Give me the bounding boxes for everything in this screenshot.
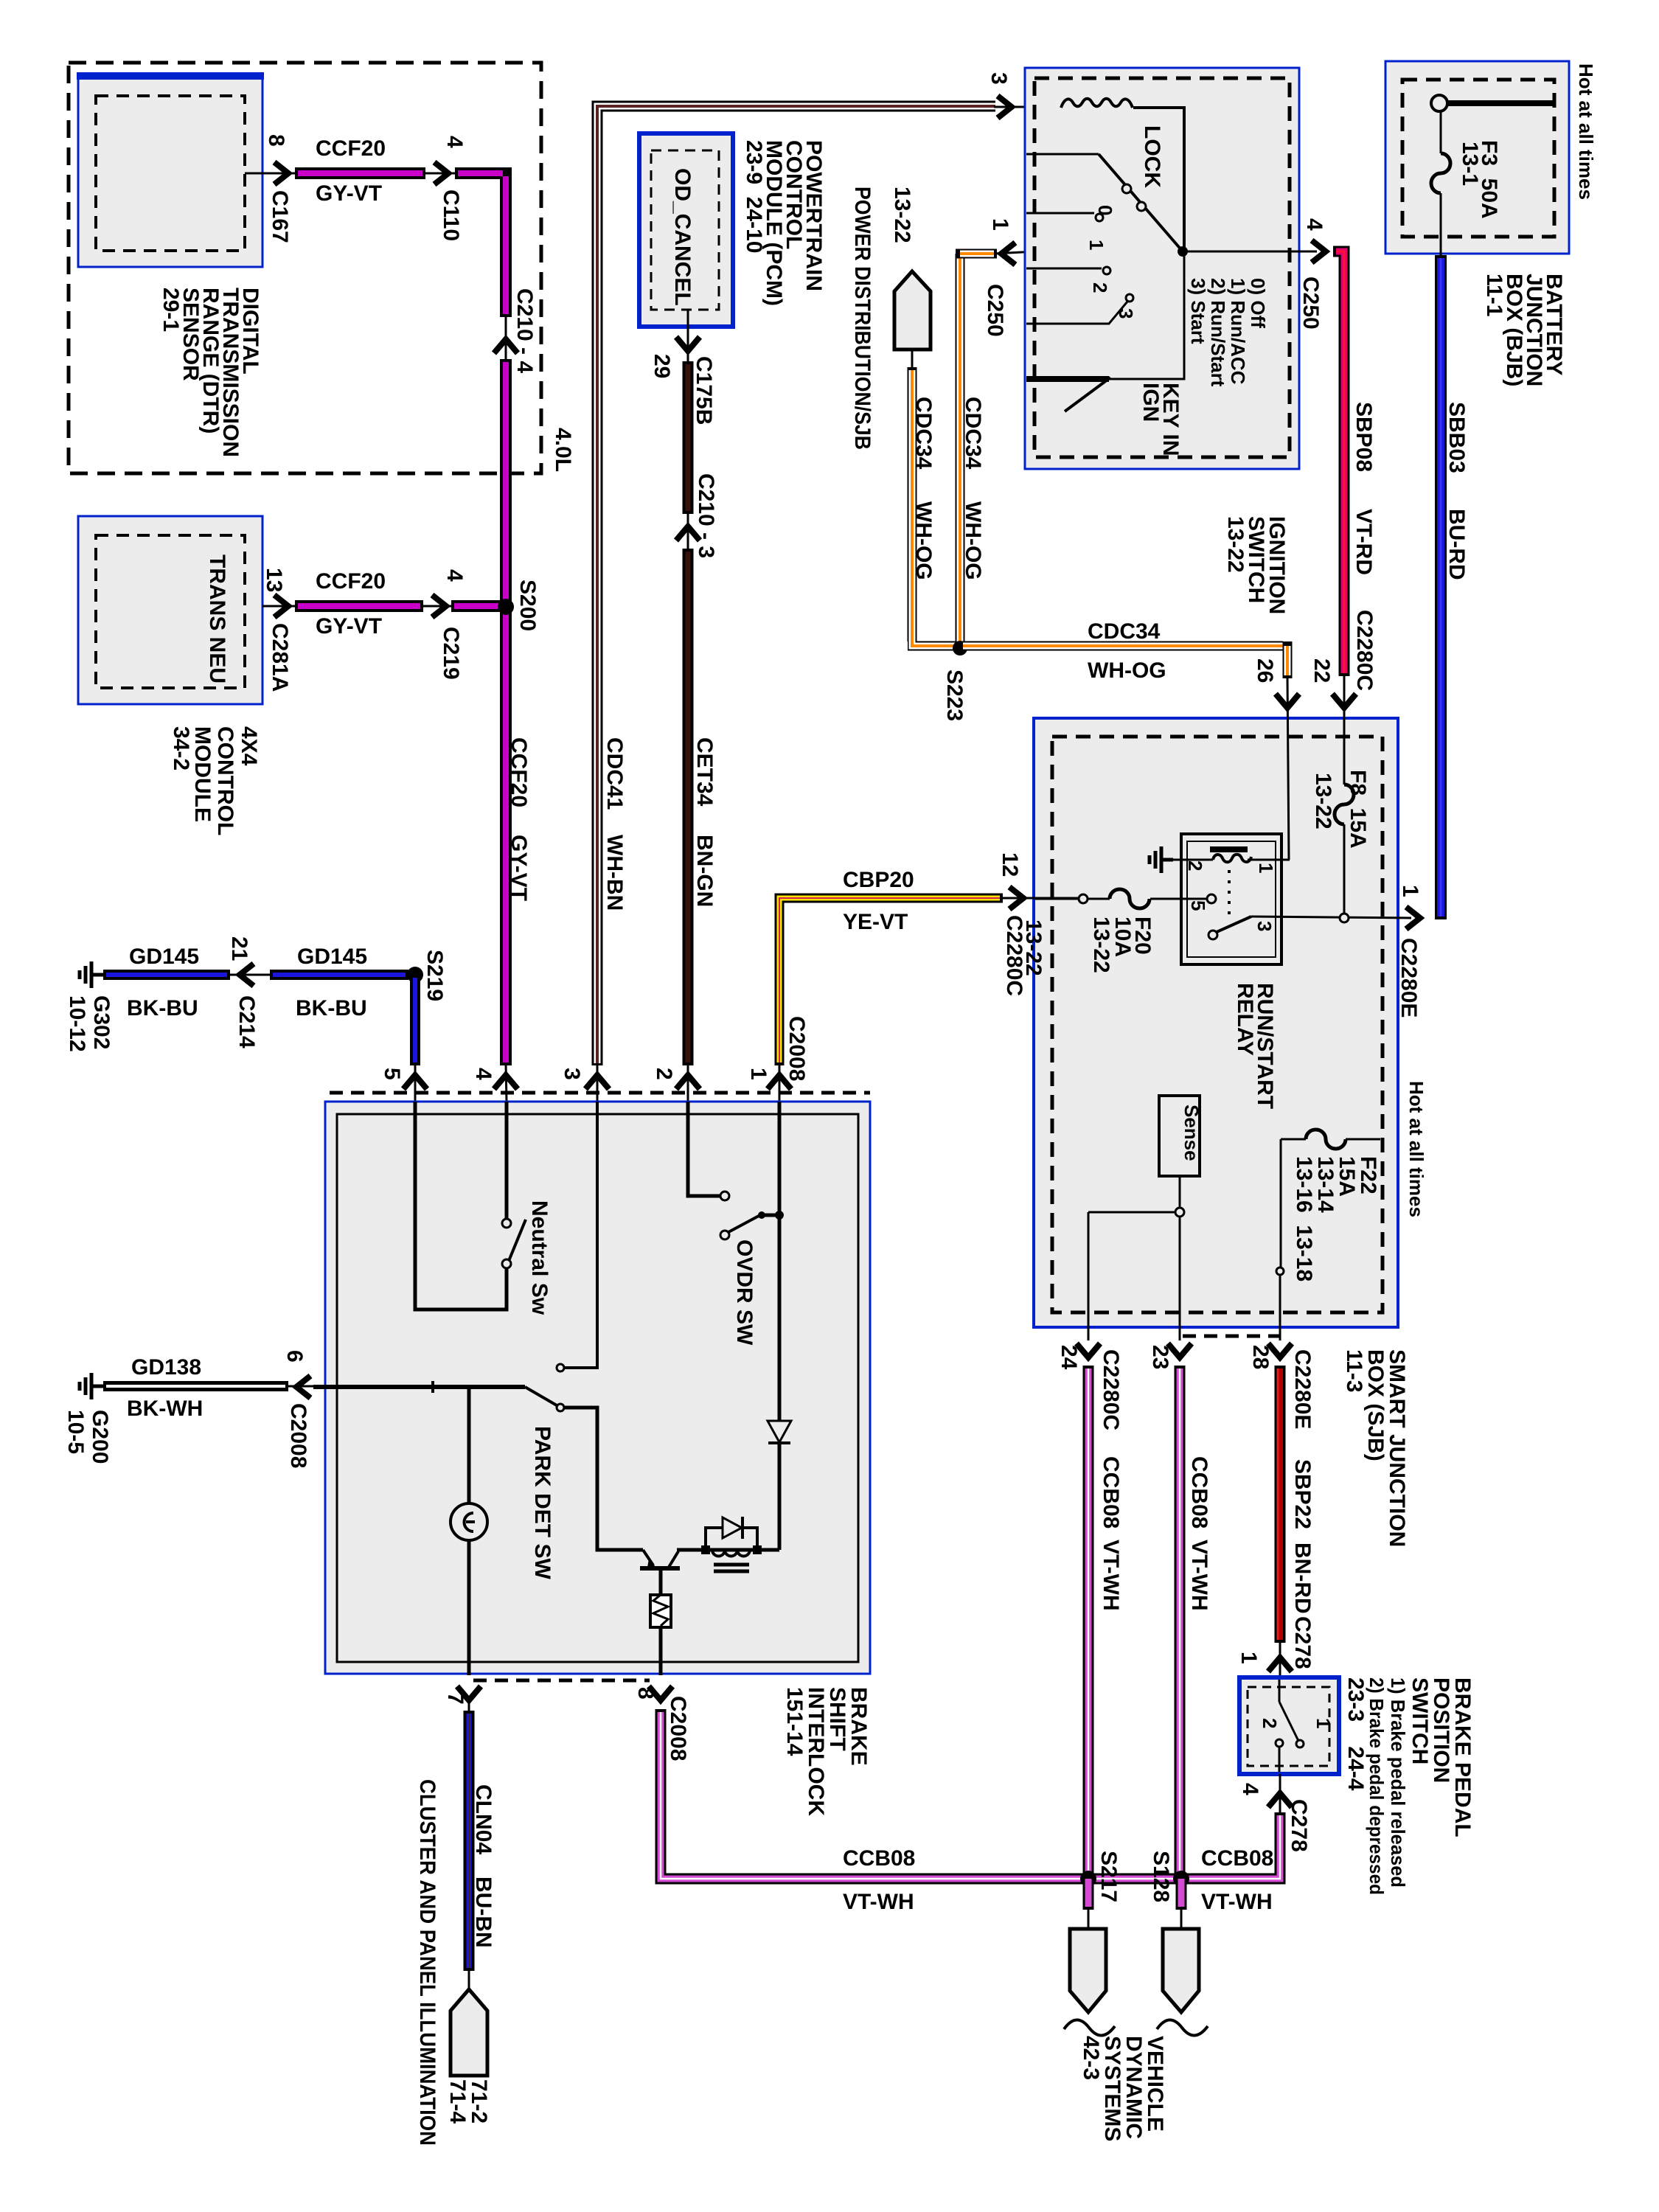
svg-text:13-1: 13-1 bbox=[1458, 142, 1482, 186]
svg-text:SBP22: SBP22 bbox=[1290, 1459, 1315, 1529]
svg-text:C2008: C2008 bbox=[286, 1403, 310, 1468]
svg-text:OVDR SW: OVDR SW bbox=[732, 1239, 757, 1346]
svg-text:1) Run/ACC: 1) Run/ACC bbox=[1227, 278, 1249, 385]
svg-text:22: 22 bbox=[1310, 658, 1334, 683]
svg-text:SWITCH: SWITCH bbox=[1408, 1677, 1432, 1764]
svg-text:S128: S128 bbox=[1149, 1851, 1173, 1902]
svg-text:CLN04: CLN04 bbox=[471, 1784, 495, 1854]
svg-text:2: 2 bbox=[1089, 282, 1111, 293]
svg-text:LOCK: LOCK bbox=[1140, 125, 1164, 188]
svg-text:5: 5 bbox=[380, 1068, 404, 1080]
svg-text:CONTROL: CONTROL bbox=[213, 726, 237, 835]
svg-text:CLUSTER AND PANEL ILLUMINATION: CLUSTER AND PANEL ILLUMINATION bbox=[415, 1779, 439, 2146]
svg-text:4X4: 4X4 bbox=[237, 726, 261, 766]
svg-text:42-3: 42-3 bbox=[1079, 2036, 1103, 2080]
svg-text:2: 2 bbox=[1184, 860, 1206, 871]
svg-text:23: 23 bbox=[1148, 1345, 1172, 1369]
svg-text:1: 1 bbox=[1255, 863, 1277, 873]
svg-text:29: 29 bbox=[650, 354, 674, 378]
svg-text:1: 1 bbox=[1085, 240, 1107, 250]
svg-text:2: 2 bbox=[1259, 1718, 1281, 1728]
svg-text:CCB08: CCB08 bbox=[843, 1846, 915, 1871]
svg-text:VT-WH: VT-WH bbox=[1099, 1540, 1123, 1611]
svg-text:3: 3 bbox=[987, 72, 1011, 85]
svg-text:Sense: Sense bbox=[1180, 1105, 1203, 1161]
svg-text:WH-OG: WH-OG bbox=[961, 501, 985, 580]
svg-text:1: 1 bbox=[988, 218, 1012, 231]
svg-text:IGN: IGN bbox=[1138, 383, 1163, 422]
svg-text:8: 8 bbox=[633, 1687, 658, 1700]
svg-text:Hot at all times: Hot at all times bbox=[1575, 63, 1597, 200]
svg-text:POWER DISTRIBUTION/SJB: POWER DISTRIBUTION/SJB bbox=[850, 187, 874, 450]
svg-text:71-4: 71-4 bbox=[445, 2079, 470, 2124]
svg-text:CDC34: CDC34 bbox=[1088, 619, 1161, 644]
svg-text:S217: S217 bbox=[1096, 1851, 1121, 1902]
svg-text:0) Off: 0) Off bbox=[1247, 278, 1269, 328]
svg-text:8: 8 bbox=[264, 134, 288, 147]
svg-text:1: 1 bbox=[1237, 1652, 1261, 1664]
svg-text:SBB03: SBB03 bbox=[1444, 402, 1469, 473]
svg-text:34-2: 34-2 bbox=[169, 726, 193, 771]
svg-text:C250: C250 bbox=[1298, 276, 1323, 330]
svg-text:Neutral Sw: Neutral Sw bbox=[527, 1200, 552, 1315]
svg-text:CDC34: CDC34 bbox=[961, 397, 985, 470]
svg-text:VT-WH: VT-WH bbox=[1187, 1540, 1211, 1611]
svg-text:SBP08: SBP08 bbox=[1352, 402, 1376, 472]
svg-text:151-14: 151-14 bbox=[782, 1687, 807, 1756]
svg-text:RELAY: RELAY bbox=[1233, 983, 1257, 1056]
svg-text:C175B: C175B bbox=[692, 356, 716, 425]
svg-text:7: 7 bbox=[443, 1692, 467, 1705]
svg-text:C2280C: C2280C bbox=[1002, 915, 1026, 996]
svg-text:OD_CANCEL: OD_CANCEL bbox=[670, 168, 695, 306]
svg-text:CDC41: CDC41 bbox=[602, 737, 627, 810]
svg-text:1: 1 bbox=[1312, 1718, 1335, 1728]
svg-text:0: 0 bbox=[1094, 205, 1116, 215]
svg-text:10-5: 10-5 bbox=[63, 1410, 88, 1454]
svg-text:Hot at all times: Hot at all times bbox=[1405, 1081, 1427, 1217]
svg-text:GY-VT: GY-VT bbox=[316, 181, 382, 206]
svg-text:10-12: 10-12 bbox=[65, 995, 89, 1052]
svg-text:C2280E: C2280E bbox=[1397, 938, 1421, 1018]
svg-text:6: 6 bbox=[282, 1350, 307, 1363]
svg-text:S200: S200 bbox=[515, 580, 540, 631]
svg-text:11-1: 11-1 bbox=[1482, 274, 1506, 316]
svg-text:C2280E: C2280E bbox=[1290, 1349, 1315, 1429]
svg-text:WH-BN: WH-BN bbox=[602, 835, 627, 911]
svg-text:BK-BU: BK-BU bbox=[127, 996, 198, 1020]
svg-text:CCB08: CCB08 bbox=[1201, 1846, 1273, 1871]
svg-text:1) Brake pedal released: 1) Brake pedal released bbox=[1387, 1677, 1409, 1888]
svg-text:11-3: 11-3 bbox=[1342, 1349, 1366, 1392]
svg-text:C219: C219 bbox=[439, 627, 463, 680]
svg-text:BU-RD: BU-RD bbox=[1444, 509, 1469, 580]
svg-text:26: 26 bbox=[1253, 658, 1277, 683]
svg-text:C2008: C2008 bbox=[666, 1696, 690, 1761]
svg-text:C281A: C281A bbox=[268, 623, 292, 692]
svg-text:C250: C250 bbox=[983, 284, 1007, 337]
svg-text:4: 4 bbox=[471, 1068, 495, 1080]
svg-text:BN-GN: BN-GN bbox=[692, 835, 717, 907]
svg-text:CCF20: CCF20 bbox=[316, 136, 386, 161]
svg-text:4: 4 bbox=[1238, 1783, 1262, 1795]
svg-text:C110: C110 bbox=[439, 189, 463, 241]
svg-text:CCB08: CCB08 bbox=[1099, 1456, 1123, 1528]
svg-text:C2280C: C2280C bbox=[1099, 1349, 1123, 1430]
svg-text:1: 1 bbox=[1398, 885, 1422, 897]
svg-text:BU-BN: BU-BN bbox=[471, 1877, 495, 1948]
svg-text:21: 21 bbox=[227, 936, 251, 961]
svg-text:24: 24 bbox=[1057, 1345, 1081, 1370]
svg-text:C167: C167 bbox=[268, 190, 292, 243]
svg-text:3: 3 bbox=[560, 1068, 584, 1080]
svg-text:F8 15A: F8 15A bbox=[1346, 770, 1370, 849]
svg-text:2: 2 bbox=[652, 1068, 676, 1080]
svg-text:GY-VT: GY-VT bbox=[316, 614, 382, 639]
svg-text:CET34: CET34 bbox=[692, 737, 717, 807]
svg-text:GD145: GD145 bbox=[297, 945, 367, 969]
svg-text:C2008: C2008 bbox=[785, 1016, 809, 1081]
svg-text:VT-WH: VT-WH bbox=[1201, 1890, 1273, 1914]
svg-text:VT-WH: VT-WH bbox=[843, 1890, 914, 1914]
svg-text:BK-WH: BK-WH bbox=[127, 1397, 203, 1421]
svg-text:4.0L: 4.0L bbox=[551, 428, 575, 472]
svg-text:C278: C278 bbox=[1290, 1616, 1315, 1669]
svg-text:2) Brake pedal depressed: 2) Brake pedal depressed bbox=[1366, 1677, 1388, 1895]
svg-text:C210 - 4: C210 - 4 bbox=[512, 288, 537, 373]
svg-text:13-22: 13-22 bbox=[1089, 917, 1113, 973]
svg-text:GD138: GD138 bbox=[131, 1355, 201, 1380]
svg-text:VT-RD: VT-RD bbox=[1352, 509, 1376, 575]
svg-text:4: 4 bbox=[1302, 218, 1326, 231]
svg-text:BN-RD: BN-RD bbox=[1290, 1543, 1315, 1614]
svg-text:C210 - 3: C210 - 3 bbox=[694, 473, 718, 558]
svg-text:1: 1 bbox=[746, 1068, 771, 1080]
svg-text:C214: C214 bbox=[234, 995, 259, 1048]
svg-text:S223: S223 bbox=[942, 669, 967, 721]
svg-text:G200: G200 bbox=[88, 1410, 112, 1464]
svg-text:13-22: 13-22 bbox=[1311, 773, 1335, 829]
svg-text:3: 3 bbox=[1115, 308, 1137, 319]
svg-text:PARK DET SW: PARK DET SW bbox=[530, 1426, 554, 1579]
svg-text:28: 28 bbox=[1248, 1345, 1273, 1369]
svg-text:CDC34: CDC34 bbox=[911, 397, 936, 470]
svg-text:GD145: GD145 bbox=[129, 945, 199, 969]
svg-text:WH-OG: WH-OG bbox=[1088, 658, 1166, 683]
svg-text:4: 4 bbox=[442, 569, 467, 582]
svg-text:5: 5 bbox=[1187, 900, 1209, 911]
svg-text:3: 3 bbox=[1253, 921, 1276, 931]
svg-text:GY-VT: GY-VT bbox=[507, 835, 531, 901]
svg-text:29-1: 29-1 bbox=[159, 288, 183, 332]
svg-text:S219: S219 bbox=[422, 950, 447, 1001]
svg-text:13: 13 bbox=[262, 568, 286, 592]
svg-text:CCF20: CCF20 bbox=[507, 737, 531, 807]
svg-text:C278: C278 bbox=[1287, 1799, 1311, 1852]
svg-text:13-16 13-18: 13-16 13-18 bbox=[1292, 1156, 1316, 1281]
svg-text:13-22: 13-22 bbox=[890, 187, 914, 243]
svg-text:BK-BU: BK-BU bbox=[296, 996, 367, 1020]
svg-text:3) Start: 3) Start bbox=[1187, 278, 1209, 344]
svg-text:CBP20: CBP20 bbox=[843, 868, 914, 892]
svg-text:CCF20: CCF20 bbox=[316, 569, 386, 594]
svg-text:23-9 24-10: 23-9 24-10 bbox=[742, 140, 766, 253]
svg-text:CCB08: CCB08 bbox=[1187, 1456, 1211, 1528]
svg-text:12: 12 bbox=[998, 852, 1022, 877]
svg-text:4: 4 bbox=[442, 136, 467, 148]
svg-text:C2280C: C2280C bbox=[1352, 610, 1377, 691]
svg-text:TRANS NEU: TRANS NEU bbox=[205, 554, 229, 684]
svg-text:2) Run/Start: 2) Run/Start bbox=[1207, 278, 1229, 387]
svg-text:13-22: 13-22 bbox=[1223, 516, 1248, 573]
svg-text:23-3 24-4: 23-3 24-4 bbox=[1343, 1677, 1368, 1791]
svg-text:G302: G302 bbox=[89, 995, 114, 1049]
svg-text:YE-VT: YE-VT bbox=[843, 910, 908, 934]
svg-text:WH-OG: WH-OG bbox=[911, 501, 936, 580]
